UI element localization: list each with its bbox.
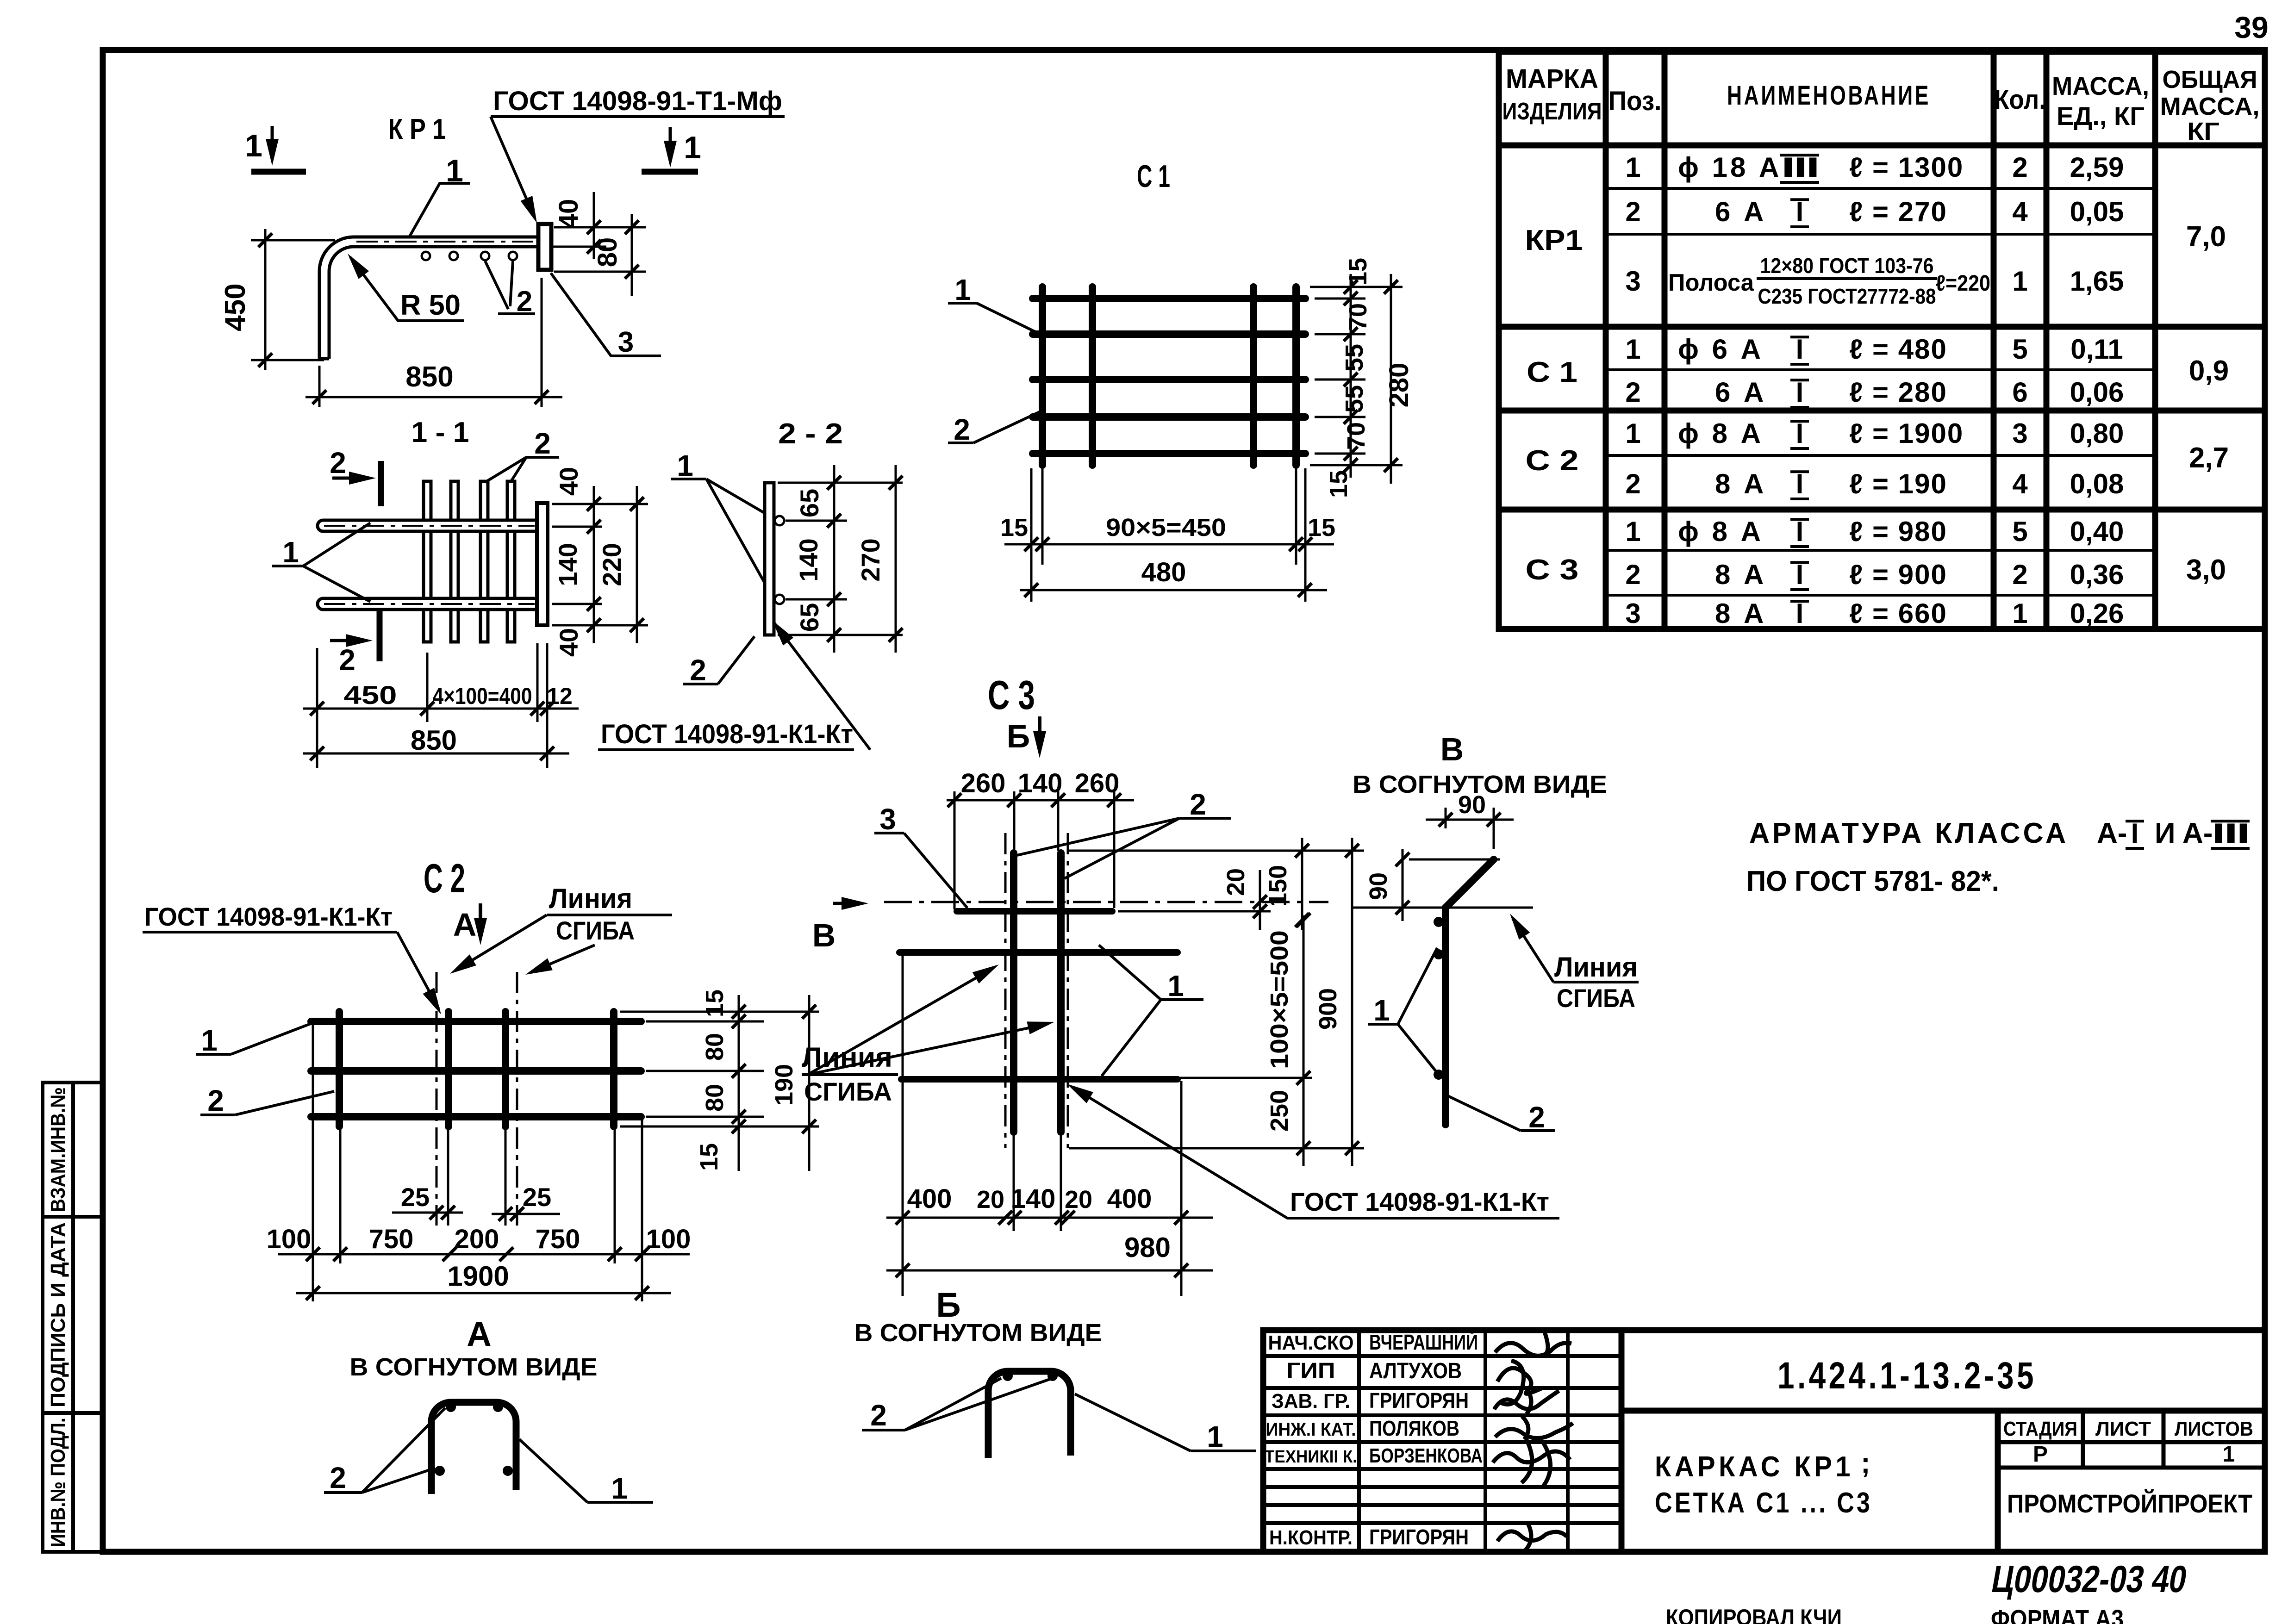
dim line 25 right xyxy=(492,1213,560,1215)
svg-text:0,36: 0,36 xyxy=(2070,559,2124,590)
svg-text:ТЕХНИКII К.: ТЕХНИКII К. xyxy=(1265,1447,1357,1467)
leader poz 2 2-2 xyxy=(683,683,718,685)
rod dot 1 xyxy=(1434,949,1444,959)
svg-text:К Р 1: К Р 1 xyxy=(388,113,446,145)
svg-text:3,0: 3,0 xyxy=(2186,554,2226,586)
svg-text:90: 90 xyxy=(1365,872,1392,900)
C2 fold line right xyxy=(516,972,518,1226)
leader poz 2 bent A xyxy=(324,1491,362,1494)
leader poz 2 V view xyxy=(1521,1129,1555,1132)
svg-text:8 А: 8 А xyxy=(1715,559,1766,590)
svg-text:12: 12 xyxy=(547,683,573,709)
bent shape B (C3 bent) xyxy=(988,1371,1071,1458)
svg-text:1: 1 xyxy=(2223,1442,2235,1467)
dim line 1900 C2 xyxy=(296,1292,671,1294)
dim chain line C3 bottom xyxy=(886,1217,1213,1219)
svg-text:90×5=450: 90×5=450 xyxy=(1106,514,1226,541)
svg-text:В СОГНУТОМ ВИДЕ: В СОГНУТОМ ВИДЕ xyxy=(350,1353,598,1381)
leader poz 3 C3 xyxy=(874,832,904,834)
ext line bar3 down xyxy=(505,1129,507,1226)
leader poz 1 bent B xyxy=(1191,1450,1256,1452)
svg-text:ϕ 8 А: ϕ 8 А xyxy=(1678,418,1764,449)
svg-text:2 - 2: 2 - 2 xyxy=(778,418,843,450)
svg-text:6 А: 6 А xyxy=(1715,196,1766,227)
1-1 cross rod poz.2 #3 xyxy=(480,481,488,642)
C2 mesh vertical bars poz.2 xyxy=(336,1012,343,1126)
dim line 480 C1 xyxy=(1020,589,1327,591)
ext left pair C1 b xyxy=(1041,468,1044,565)
svg-text:12×80 ГОСТ 103-76: 12×80 ГОСТ 103-76 xyxy=(1760,254,1934,278)
svg-text:1: 1 xyxy=(201,1024,218,1057)
svg-text:40: 40 xyxy=(554,467,583,496)
KR1 cross rod circle 3 xyxy=(481,252,489,260)
svg-text:15: 15 xyxy=(1308,514,1335,541)
rod dot 2 xyxy=(1434,1070,1444,1080)
svg-text:ВЗАМ.ИНВ.№: ВЗАМ.ИНВ.№ xyxy=(47,1087,69,1212)
svg-text:4: 4 xyxy=(2012,196,2028,227)
ext right C3 bottom xyxy=(1180,1081,1183,1296)
svg-text:1900: 1900 xyxy=(447,1261,509,1292)
svg-text:0,11: 0,11 xyxy=(2070,334,2123,365)
ext left 1-1 bottom xyxy=(316,648,318,768)
svg-text:1: 1 xyxy=(446,153,463,188)
svg-text:СГИБА: СГИБА xyxy=(804,1077,892,1106)
svg-text:Б: Б xyxy=(936,1286,960,1324)
C3 horizontal bar poz.1 upper xyxy=(899,949,1178,956)
svg-text:Б: Б xyxy=(1007,718,1030,754)
2-2 cross rod poz.2 xyxy=(765,483,774,635)
svg-text:65: 65 xyxy=(795,603,824,632)
leader to weld 2-2 xyxy=(774,622,870,750)
svg-text:С235 ГОСТ27772-88: С235 ГОСТ27772-88 xyxy=(1758,284,1936,308)
svg-text:АЛТУХОВ: АЛТУХОВ xyxy=(1369,1359,1462,1383)
svg-text:2: 2 xyxy=(1625,377,1640,408)
2-2 rod circle upper xyxy=(775,516,784,525)
ext mesh top C3 xyxy=(1069,850,1364,852)
dim chain line 1-1 xyxy=(303,708,579,710)
svg-text:100: 100 xyxy=(267,1224,312,1254)
dim line 220 xyxy=(636,486,638,643)
svg-text:90: 90 xyxy=(1458,791,1486,819)
svg-text:70: 70 xyxy=(1344,303,1372,331)
svg-text:ℓ = 1900: ℓ = 1900 xyxy=(1849,418,1964,449)
leader R50 xyxy=(350,257,464,321)
ext right pair C1 b xyxy=(1304,468,1307,602)
dim line 270 xyxy=(895,465,897,653)
svg-text:750: 750 xyxy=(369,1224,414,1254)
svg-text:А-: А- xyxy=(2097,817,2127,849)
svg-text:0,40: 0,40 xyxy=(2070,516,2124,547)
ext left 90 top xyxy=(1445,808,1447,828)
svg-text:1: 1 xyxy=(2012,266,2027,297)
svg-text:2: 2 xyxy=(690,653,706,687)
leader fold line right xyxy=(531,945,595,972)
svg-text:И: И xyxy=(2155,817,2176,849)
KR1 end plate poz.3 xyxy=(538,224,551,270)
svg-text:ПРОМСТРОЙПРОЕКТ: ПРОМСТРОЙПРОЕКТ xyxy=(2007,1489,2252,1518)
svg-text:40: 40 xyxy=(554,628,583,657)
svg-text:1: 1 xyxy=(1625,152,1640,183)
svg-text:2: 2 xyxy=(330,446,346,479)
svg-text:1: 1 xyxy=(1625,418,1640,449)
svg-text:ГРИГОРЯН: ГРИГОРЯН xyxy=(1369,1525,1469,1549)
KR1 cross rod circle 2 xyxy=(449,252,458,260)
svg-text:ГОСТ 14098-91-Т1-Мф: ГОСТ 14098-91-Т1-Мф xyxy=(493,86,782,116)
ext mesh bottom C1 xyxy=(1310,464,1403,467)
leader poz 1 V view xyxy=(1368,1023,1398,1026)
ext left C3 bottom xyxy=(902,954,904,1296)
svg-text:В: В xyxy=(812,917,836,953)
svg-text:ЕД., КГ: ЕД., КГ xyxy=(2057,101,2145,131)
dim chain 500 250 C3 xyxy=(1303,915,1305,1166)
ext line bar bottom xyxy=(551,246,606,248)
svg-text:250: 250 xyxy=(1266,1090,1293,1132)
svg-text:ГОСТ 14098-91-К1-Кт: ГОСТ 14098-91-К1-Кт xyxy=(1290,1187,1549,1216)
svg-text:15: 15 xyxy=(701,989,729,1017)
svg-text:150: 150 xyxy=(1264,865,1292,907)
svg-text:0,08: 0,08 xyxy=(2070,468,2124,499)
svg-text:Поз.: Поз. xyxy=(1608,86,1662,116)
ext line top bent end xyxy=(1409,859,1500,861)
svg-text:С 2: С 2 xyxy=(1526,445,1579,477)
KR1 cross rod circle 1 xyxy=(422,252,430,260)
stadiya list listov box xyxy=(1998,1411,2265,1468)
svg-text:140: 140 xyxy=(1018,768,1063,798)
svg-text:25: 25 xyxy=(401,1182,430,1212)
leader poz 2 C2 xyxy=(200,1114,235,1116)
svg-text:260: 260 xyxy=(961,768,1006,798)
dim line 150 C3 xyxy=(1301,838,1303,930)
svg-text:ПОДПИСЬ И ДАТА: ПОДПИСЬ И ДАТА xyxy=(47,1222,69,1407)
svg-text:20: 20 xyxy=(1222,868,1250,896)
svg-text:1: 1 xyxy=(1207,1420,1223,1453)
svg-text:6 А: 6 А xyxy=(1715,377,1766,408)
svg-text:1.424.1-13.2-35: 1.424.1-13.2-35 xyxy=(1777,1355,2037,1397)
1-1 cross rod poz.2 #1 xyxy=(424,481,431,642)
svg-text:3: 3 xyxy=(1625,598,1640,629)
svg-text:СГИБА: СГИБА xyxy=(1557,983,1635,1013)
dim line 900 C3 xyxy=(1351,838,1353,1166)
svg-text:ЛИСТОВ: ЛИСТОВ xyxy=(2175,1418,2253,1440)
svg-text:1: 1 xyxy=(1167,969,1184,1002)
KR1 cross rod circle 4 xyxy=(509,252,517,260)
svg-text:0,26: 0,26 xyxy=(2070,598,2124,629)
svg-text:850: 850 xyxy=(405,361,453,393)
svg-text:С 3: С 3 xyxy=(988,672,1035,718)
C3 vertical bars poz.2 xyxy=(1010,853,1017,1132)
svg-text:15: 15 xyxy=(1000,514,1028,541)
svg-text:4×100=400: 4×100=400 xyxy=(433,683,532,709)
ext plate bottom 1-1 xyxy=(552,624,648,627)
dim chain C1 right xyxy=(1350,274,1352,478)
ext mesh top C2 xyxy=(620,1011,819,1013)
leader poz 1 C1 xyxy=(948,302,977,305)
svg-text:850: 850 xyxy=(411,725,457,756)
svg-text:1: 1 xyxy=(1373,994,1390,1027)
leader fold line left xyxy=(456,915,547,970)
svg-text:900: 900 xyxy=(1314,988,1342,1030)
svg-text:80: 80 xyxy=(701,1033,729,1061)
svg-text:ГОСТ 14098-91-К1-Кт: ГОСТ 14098-91-К1-Кт xyxy=(144,902,393,931)
svg-text:КР1: КР1 xyxy=(1525,224,1583,256)
svg-text:2: 2 xyxy=(534,427,551,460)
svg-text:Р: Р xyxy=(2033,1442,2048,1467)
svg-text:1: 1 xyxy=(611,1472,628,1505)
svg-text:2: 2 xyxy=(330,1461,346,1494)
svg-text:ГИП: ГИП xyxy=(1287,1359,1335,1383)
dim line 280 C1 xyxy=(1390,274,1392,484)
svg-text:140: 140 xyxy=(553,543,582,586)
svg-text:ϕ 6 А: ϕ 6 А xyxy=(1678,334,1764,365)
svg-text:ϕ 18 А: ϕ 18 А xyxy=(1678,152,1782,183)
svg-text:ϕ 8 А: ϕ 8 А xyxy=(1678,516,1764,547)
svg-text:КГ: КГ xyxy=(2187,118,2219,145)
2-2 rod circle lower xyxy=(775,595,784,604)
svg-text:190: 190 xyxy=(770,1064,798,1106)
leader to plate xyxy=(491,117,535,218)
ext left pair C1 a xyxy=(1030,468,1033,602)
svg-text:МАССА,: МАССА, xyxy=(2160,93,2260,120)
svg-text:2: 2 xyxy=(954,413,970,446)
svg-text:1,65: 1,65 xyxy=(2070,266,2124,297)
svg-text:ИНВ.№ ПОДЛ.: ИНВ.№ ПОДЛ. xyxy=(47,1418,69,1547)
dim line 850 KR1 xyxy=(305,396,562,398)
1-1 cross rod poz.2 #4 xyxy=(507,481,515,642)
svg-text:2: 2 xyxy=(207,1084,224,1117)
title block signature grid xyxy=(1263,1330,1621,1552)
svg-text:65: 65 xyxy=(795,489,824,517)
KR1 bar centerline xyxy=(356,241,537,243)
svg-text:140: 140 xyxy=(1011,1184,1056,1214)
svg-text:100: 100 xyxy=(646,1224,691,1254)
leader poz 1 1-1 xyxy=(272,565,303,567)
C3 fold line left xyxy=(1004,833,1007,1148)
svg-text:В СОГНУТОМ ВИДЕ: В СОГНУТОМ ВИДЕ xyxy=(854,1319,1102,1347)
svg-text:2,59: 2,59 xyxy=(2070,152,2124,183)
svg-text:ℓ = 280: ℓ = 280 xyxy=(1849,377,1947,408)
ext mesh bottom C2 xyxy=(620,1126,819,1128)
ext plate top 1-1 xyxy=(552,503,648,505)
svg-text:С 2: С 2 xyxy=(424,855,465,901)
section line V-V xyxy=(884,901,1328,903)
svg-text:ℓ = 1300: ℓ = 1300 xyxy=(1849,152,1964,183)
svg-text:2,7: 2,7 xyxy=(2189,442,2229,474)
svg-text:5: 5 xyxy=(2012,516,2027,547)
svg-text:МАРКА: МАРКА xyxy=(1506,64,1598,94)
svg-text:Н.КОНТР.: Н.КОНТР. xyxy=(1269,1526,1353,1549)
svg-text:3: 3 xyxy=(1625,266,1640,297)
centerline lower bar xyxy=(324,603,535,605)
title block outer xyxy=(1263,1330,2265,1552)
dim line 40 xyxy=(593,192,595,259)
svg-text:8 А: 8 А xyxy=(1715,598,1766,629)
svg-text:Линия: Линия xyxy=(549,883,632,914)
ext line plate top xyxy=(554,226,646,229)
dim line 25 left xyxy=(392,1212,463,1214)
dim line 20 C3 xyxy=(1259,870,1261,930)
C2 fold line left xyxy=(436,972,438,1226)
leader poz 1 C3 xyxy=(1161,998,1203,1001)
leader poz 1 bent A xyxy=(587,1501,653,1504)
ext right end C2 xyxy=(641,1120,643,1301)
svg-text:5: 5 xyxy=(2012,334,2027,365)
leader poz 1 2-2 xyxy=(671,478,706,480)
svg-text:R 50: R 50 xyxy=(400,289,461,321)
svg-text:7,0: 7,0 xyxy=(2186,221,2226,253)
svg-text:ℓ=220: ℓ=220 xyxy=(1936,271,1990,296)
fold line level V xyxy=(1351,907,1533,909)
ext line right KR1 850 xyxy=(541,278,543,407)
leader poz 2 1-1 xyxy=(485,457,526,482)
svg-text:70: 70 xyxy=(1342,422,1370,450)
dim chain line C2 xyxy=(278,1253,690,1256)
svg-text:750: 750 xyxy=(536,1224,580,1254)
svg-text:2: 2 xyxy=(1625,559,1640,590)
ext right pair C1 a xyxy=(1295,468,1297,565)
svg-text:1: 1 xyxy=(282,535,299,569)
svg-text:0,05: 0,05 xyxy=(2070,196,2124,227)
svg-text:1: 1 xyxy=(1625,334,1640,365)
dim chain C2 right xyxy=(738,995,740,1171)
dim line 90 left xyxy=(1402,849,1404,921)
leader poz 2 C1 xyxy=(948,442,973,444)
svg-text:Полоса: Полоса xyxy=(1668,269,1754,296)
leader poz 2 KR1 xyxy=(485,261,508,314)
ext right 90 top xyxy=(1493,808,1495,849)
svg-text:55: 55 xyxy=(1340,385,1368,413)
svg-text:ВЧЕРАШНИЙ: ВЧЕРАШНИЙ xyxy=(1369,1330,1478,1354)
svg-text:2: 2 xyxy=(517,286,532,317)
ext rod bottom 2-2 xyxy=(778,634,903,636)
svg-text:КАРКАС КР1: КАРКАС КР1 xyxy=(1655,1451,1854,1483)
ext left end C2 xyxy=(312,1025,314,1301)
ext line bottom KR1 450 xyxy=(251,359,324,361)
centerline upper bar xyxy=(324,525,535,527)
svg-text:200: 200 xyxy=(455,1224,499,1254)
svg-text:ℓ = 980: ℓ = 980 xyxy=(1849,516,1947,547)
leader poz 1 xyxy=(409,183,470,238)
svg-text:1: 1 xyxy=(1625,516,1640,547)
dim chain line C3 top xyxy=(947,799,1134,802)
leader poz 2 C3 xyxy=(1179,817,1231,820)
svg-text:С 1: С 1 xyxy=(1527,356,1577,388)
KR1 main bar poz.1 bent L-shape xyxy=(319,237,538,359)
svg-text:ГРИГОРЯН: ГРИГОРЯН xyxy=(1369,1388,1469,1412)
svg-text:25: 25 xyxy=(523,1182,551,1212)
ext mesh bottom C3 xyxy=(1069,1147,1364,1150)
C3 fold line right xyxy=(1067,833,1069,1148)
svg-text:ℓ = 480: ℓ = 480 xyxy=(1849,334,1947,365)
svg-text:Линия: Линия xyxy=(1554,952,1638,983)
svg-text:1: 1 xyxy=(245,128,262,163)
svg-text:АРМАТУРА КЛАССА: АРМАТУРА КЛАССА xyxy=(1749,817,2069,849)
svg-text:80: 80 xyxy=(701,1084,729,1112)
svg-text:ℓ = 270: ℓ = 270 xyxy=(1849,196,1947,227)
1-1 main bar poz.1 upper xyxy=(318,520,537,531)
svg-text:1: 1 xyxy=(954,273,971,306)
svg-text:ОБЩАЯ: ОБЩАЯ xyxy=(2163,66,2257,93)
C1 mesh horizontal bars poz.1 xyxy=(1033,295,1305,302)
svg-text:СЕТКА С1 ... С3: СЕТКА С1 ... С3 xyxy=(1655,1487,1872,1519)
svg-text:ИЗДЕЛИЯ: ИЗДЕЛИЯ xyxy=(1502,98,1602,125)
dim line 850 1-1 xyxy=(303,753,569,755)
svg-text:2: 2 xyxy=(2012,559,2027,590)
svg-text:1: 1 xyxy=(2012,598,2027,629)
svg-text:2: 2 xyxy=(2012,152,2027,183)
ext line top KR1 450 xyxy=(251,239,335,242)
table thin row separators xyxy=(1606,188,2155,595)
svg-text:Ц00032-03 40: Ц00032-03 40 xyxy=(1989,1558,2190,1600)
svg-text:В: В xyxy=(1440,731,1464,767)
ext line left KR1 850 xyxy=(318,366,321,407)
svg-text:450: 450 xyxy=(219,283,251,331)
svg-text:ГОСТ 14098-91-К1-Кт: ГОСТ 14098-91-К1-Кт xyxy=(601,719,853,749)
dim line 90 top xyxy=(1426,819,1514,821)
svg-text:400: 400 xyxy=(1107,1184,1152,1214)
svg-text:2: 2 xyxy=(870,1399,887,1432)
C1 mesh vertical bars poz.2 xyxy=(1039,287,1046,465)
svg-text:0,06: 0,06 xyxy=(2070,377,2124,408)
svg-text:260: 260 xyxy=(1075,768,1120,798)
svg-text:0,80: 0,80 xyxy=(2070,418,2124,449)
svg-text:220: 220 xyxy=(597,543,626,586)
svg-text:2: 2 xyxy=(1190,788,1206,821)
svg-text:480: 480 xyxy=(1141,557,1186,587)
ext top bar C3 xyxy=(1118,910,1271,913)
svg-text:ФОРМАТ А3: ФОРМАТ А3 xyxy=(1991,1605,2124,1624)
C3 horizontal bar poz.1 lower xyxy=(901,1076,1178,1083)
1-1 cross rod poz.2 #2 xyxy=(451,481,458,642)
svg-text:ℓ = 190: ℓ = 190 xyxy=(1849,468,1947,499)
ext mesh top C1 xyxy=(1310,286,1403,288)
dim line 980 C3 xyxy=(886,1269,1213,1272)
svg-text:270: 270 xyxy=(856,538,885,581)
svg-text:БОРЗЕНКОВА: БОРЗЕНКОВА xyxy=(1369,1444,1483,1467)
svg-text:1: 1 xyxy=(677,449,693,482)
svg-text:А-: А- xyxy=(2182,817,2213,849)
ext rod top 2-2 xyxy=(778,482,903,484)
svg-text:140: 140 xyxy=(794,538,823,581)
svg-text:3: 3 xyxy=(879,803,896,836)
svg-text:НАИМЕНОВАНИЕ: НАИМЕНОВАНИЕ xyxy=(1727,81,1931,111)
svg-text:3: 3 xyxy=(618,326,634,358)
svg-text:НАЧ.СКО: НАЧ.СКО xyxy=(1268,1332,1354,1354)
dim chain 65 140 65 xyxy=(833,465,835,653)
signatures handwritten xyxy=(1493,1330,1573,1550)
svg-text:4: 4 xyxy=(2012,468,2028,499)
svg-text:ПОЛЯКОВ: ПОЛЯКОВ xyxy=(1369,1416,1459,1440)
bent bar poz.2 V view xyxy=(1446,859,1494,1125)
svg-text:Кол.: Кол. xyxy=(1994,85,2046,115)
1-1 main bar poz.1 lower xyxy=(318,598,537,610)
ext line C3 topdim 1 xyxy=(954,791,956,909)
svg-text:39: 39 xyxy=(2234,10,2268,44)
leader poz 3 KR1 xyxy=(551,273,661,356)
svg-text:;: ; xyxy=(1861,1447,1870,1479)
leader poz 2 bent B xyxy=(862,1429,905,1431)
specification table grid xyxy=(1499,52,2265,629)
svg-text:40: 40 xyxy=(554,199,584,229)
svg-text:1 - 1: 1 - 1 xyxy=(411,417,469,448)
svg-text:1: 1 xyxy=(684,130,701,165)
svg-text:2: 2 xyxy=(1625,196,1640,227)
svg-text:Линия: Линия xyxy=(802,1042,892,1073)
svg-text:400: 400 xyxy=(907,1184,952,1214)
leader poz 1 C2 xyxy=(196,1053,231,1056)
leaders fold lines C3 xyxy=(808,968,993,1075)
svg-text:А: А xyxy=(467,1315,491,1353)
svg-text:ℓ = 660: ℓ = 660 xyxy=(1849,598,1947,629)
